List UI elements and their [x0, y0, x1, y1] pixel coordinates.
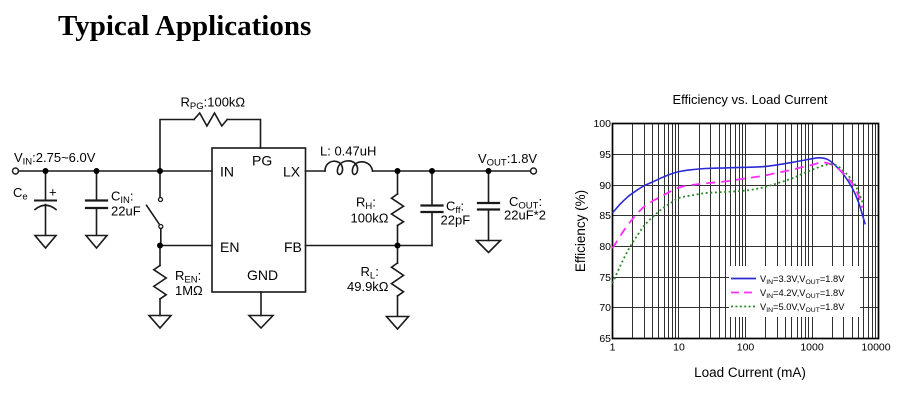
- node: rail/CIN: [94, 168, 100, 174]
- node: EN junction: [157, 243, 163, 249]
- wire: GND pin to ground: [260, 292, 262, 316]
- wire: Ce to ground: [45, 205, 47, 236]
- node: out/COUT: [486, 168, 492, 174]
- wire: FB node down to RL: [397, 246, 399, 264]
- wire: Cff branch down from output rail: [431, 171, 433, 205]
- legend sample line 4.2V: [731, 292, 756, 294]
- capacitor CIN plates: [86, 199, 107, 201]
- svg-text:Typical Applications: Typical Applications: [58, 10, 311, 42]
- capacitor Ce top plate: [35, 200, 56, 202]
- svg-text:1: 1: [610, 342, 616, 354]
- capacitor Ce curved bottom plate: [35, 205, 56, 209]
- svg-text:80: 80: [599, 241, 611, 253]
- svg-text:GND: GND: [247, 267, 278, 283]
- wire: inductor to output terminal: [373, 170, 531, 172]
- ground (CIN): [86, 236, 107, 249]
- svg-text:75: 75: [599, 272, 611, 284]
- wire: CIN to ground: [96, 209, 98, 235]
- legend sample line 5.0V: [731, 306, 756, 308]
- output terminal VOUT: [531, 168, 537, 174]
- wire: Cff to FB wire: [431, 213, 433, 246]
- svg-text:85: 85: [599, 210, 611, 222]
- svg-text:10: 10: [673, 342, 685, 354]
- axis tick labels: [593, 118, 890, 353]
- curve VIN=5.0V (green dotted): [613, 164, 864, 283]
- svg-text:70: 70: [599, 302, 611, 314]
- svg-text:100kΩ: 100kΩ: [351, 211, 389, 226]
- resistor RH zigzag: [392, 194, 404, 226]
- wire: CIN branch vertical: [96, 171, 98, 200]
- chart gridlines: [613, 124, 879, 339]
- switch blade: [147, 205, 160, 224]
- wire: RPG left branch up from input rail: [160, 120, 194, 172]
- legend sample line 3.3V: [731, 278, 756, 280]
- svg-text:1MΩ: 1MΩ: [175, 283, 203, 298]
- svg-text:LX: LX: [283, 164, 301, 180]
- curve VIN=3.3V (blue solid): [613, 158, 866, 225]
- wire: RH branch down from output rail: [397, 171, 399, 194]
- svg-text:95: 95: [599, 149, 611, 161]
- svg-text:IN: IN: [220, 164, 234, 180]
- ground (RL): [387, 317, 409, 330]
- resistor RPG zigzag: [194, 113, 227, 126]
- switch EN (upper contact): [159, 174, 161, 197]
- node: out/Cff: [429, 168, 435, 174]
- chart border/axes: [613, 124, 879, 339]
- svg-text:EN: EN: [220, 239, 239, 255]
- svg-text:100: 100: [737, 342, 755, 354]
- curve VIN=4.2V (magenta dashed): [613, 162, 863, 248]
- wire: FB from IC to Cff bottom: [306, 245, 433, 247]
- resistor REN zigzag: [154, 266, 166, 300]
- svg-text:FB: FB: [284, 239, 302, 255]
- legend box: [729, 266, 860, 317]
- junction dots: [43, 168, 492, 249]
- wire: RPG right branch down to PG pin: [227, 120, 260, 149]
- svg-text:L: 0.47uH: L: 0.47uH: [320, 144, 376, 159]
- wire: COUT branch down from output rail: [488, 171, 490, 203]
- svg-text:+: +: [49, 185, 57, 200]
- svg-text:100: 100: [593, 118, 611, 130]
- svg-text:Load Current (mA): Load Current (mA): [694, 365, 806, 380]
- wire: RH to FB node: [397, 226, 399, 246]
- ground (GND pin): [249, 316, 273, 329]
- svg-text:22uF: 22uF: [111, 204, 141, 219]
- svg-text:22uF*2: 22uF*2: [504, 208, 546, 223]
- capacitor COUT plates: [478, 202, 499, 204]
- capacitor Cff plates: [422, 204, 443, 206]
- svg-text:PG: PG: [252, 153, 272, 169]
- wire: input rail from terminal to IC IN pin: [19, 170, 213, 172]
- op IC box U1: [212, 148, 306, 292]
- svg-text:Efficiency (%): Efficiency (%): [573, 190, 588, 272]
- schematic labels: [13, 95, 546, 299]
- inductor L coil: [325, 161, 373, 175]
- wire: RL to ground: [397, 296, 399, 316]
- node: rail/RPG/switch: [157, 168, 163, 174]
- node: FB junction: [395, 243, 401, 249]
- wire: Ce branch vertical: [45, 171, 47, 200]
- ground (REN): [149, 316, 171, 329]
- switch EN (lower contact): [159, 225, 163, 229]
- ground (COUT): [477, 241, 501, 253]
- wire: COUT to ground: [488, 211, 490, 241]
- svg-text:1000: 1000: [800, 342, 824, 354]
- svg-text:22pF: 22pF: [441, 213, 471, 228]
- svg-text:49.9kΩ: 49.9kΩ: [347, 279, 389, 294]
- resistor RL zigzag: [392, 263, 404, 296]
- wire: LX pin to inductor: [306, 170, 326, 172]
- node: out/RH: [395, 168, 401, 174]
- input terminal VIN: [13, 168, 19, 174]
- node: rail/Ce: [43, 168, 49, 174]
- svg-text:Efficiency vs. Load Current: Efficiency vs. Load Current: [672, 92, 827, 107]
- wire: EN junction down to REN: [159, 246, 161, 266]
- ground (Ce): [35, 236, 56, 249]
- wire: REN to ground: [159, 299, 161, 316]
- svg-text:90: 90: [599, 180, 611, 192]
- svg-text:10000: 10000: [861, 342, 890, 354]
- wire: EN to IC: [160, 245, 212, 247]
